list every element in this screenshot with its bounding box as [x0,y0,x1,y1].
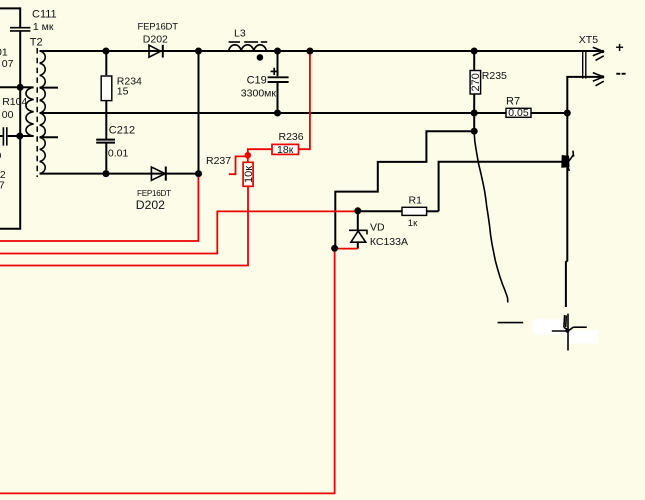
junction: diode link on + rail [195,48,202,55]
diode D202 (top, FEP16DT) [149,45,163,58]
junction: R1 / zener cathode node [354,207,361,214]
small dash mark [498,322,524,324]
junction: R235 top on + rail [471,48,478,55]
junction: C212 bottom on lower rail [103,170,110,177]
svg-text:D202: D202 [136,198,165,212]
capacitor C212 [96,140,115,174]
resistor R236 [248,52,310,156]
wire: entry to node at y=87.3 [0,86,20,88]
red wire: R237 bottom lead out left [0,187,248,266]
junction dot (red) R236/R237 [245,152,252,159]
svg-text:T2: T2 [30,36,43,48]
wire: long vertical from R7 node down [566,113,567,307]
svg-text:15: 15 [117,85,129,97]
svg-text:3300мк: 3300мк [241,87,277,99]
wire: C111 top entry [0,8,20,27]
svg-text:D202: D202 [143,33,168,45]
svg-text:1 мк: 1 мк [33,21,54,33]
svg-text:270: 270 [470,73,482,91]
junction: R235 bottom on middle rail [471,110,478,117]
red wire: from bottom-rail node down and out left [0,175,198,241]
secondary (right) winding [40,51,46,88]
wire: vertical joining diode cathodes x=198.5 [198,51,200,174]
resistor R234 [101,51,112,139]
svg-text:R236: R236 [279,131,304,143]
minus terminal sign [616,73,625,75]
svg-text:C19: C19 [247,75,267,87]
primary (left) winding [20,86,33,88]
svg-text:R1: R1 [409,194,423,206]
cursor cross scribble [552,314,587,351]
svg-text:07: 07 [0,180,5,192]
svg-text:01: 01 [0,46,8,58]
junction: primary bottom node [16,133,23,140]
svg-text:0.01: 0.01 [108,147,129,159]
wire: R1 output to right vertical [439,162,563,212]
transformer T2 [20,48,58,177]
red wire: zener anode link [335,248,358,250]
plus sign of C19 [271,70,278,72]
resistor R1 [358,207,439,215]
svg-text:C212: C212 [109,124,135,136]
svg-text:10к: 10к [243,166,255,183]
capacitor (left edge, partial) [0,127,20,145]
resistor R7 [506,108,531,117]
red wire: left exit to zener junction [0,211,355,253]
junction: R234 top on + rail [103,48,110,55]
svg-text:R7: R7 [506,96,520,108]
resistor R237 [229,155,253,186]
svg-text:C111: C111 [32,8,57,20]
junction: R7 right / XT5 riser [564,110,571,117]
svg-text:0.05: 0.05 [508,107,529,119]
zener diode VD KC133A [349,211,368,249]
svg-text:VD: VD [370,222,385,234]
svg-text:КС133А: КС133А [370,236,408,248]
junction: diode cathode node on lower rail [195,170,202,177]
wire: staircase from mid rail node down-left to zener anode node [335,113,474,248]
svg-text:FEP16DT: FEP16DT [138,22,179,33]
wire: middle rail y=113 [40,112,568,114]
diode D202 (bottom, FEP16DT) [151,167,165,181]
junction: staircase / squiggle node [471,128,478,135]
junction: R236 riser on + rail [306,48,313,55]
svg-text:R237: R237 [206,155,231,167]
tap stubs [40,87,59,89]
minus chevron [593,73,603,77]
resistor R235 [470,51,481,113]
wire: left column below C111 down to exit [0,32,20,229]
scribble arrow blob at (567,161) [562,151,574,171]
inductor L3 [229,42,268,51]
plus chevron [593,47,603,51]
minus line riser [567,77,603,113]
hand-drawn squiggle from node (474,131) [474,134,508,303]
junction: C111 / primary top node [17,84,24,91]
capacitor C111 [10,28,30,31]
svg-text:00: 00 [2,109,14,121]
capacitor C19 (electrolytic) [268,51,289,113]
svg-text:R104: R104 [2,96,27,108]
junction: C19 top on + rail [274,48,281,55]
double bars [582,50,584,78]
svg-text:L3: L3 [234,27,246,39]
junction: C19 bottom on middle rail [274,110,281,117]
svg-text:FEP16DT: FEP16DT [137,189,171,198]
svg-text:0: 0 [0,150,2,162]
L3 winding-start dot [257,54,264,61]
svg-text:R235: R235 [482,70,507,82]
connector XT5 [567,47,604,113]
white patches near cursor [533,320,565,335]
wire: top rail (+) y=51 [40,50,602,52]
svg-text:XT5: XT5 [579,34,598,46]
core dashed line [36,48,38,177]
svg-text:07: 07 [2,58,14,70]
red wire: long vertical to bottom and out left [0,250,335,493]
svg-text:1к: 1к [408,218,418,229]
svg-text:18к: 18к [277,144,294,156]
svg-text:+: + [616,39,624,55]
wire: bottom rail y=173.6 [40,173,199,175]
junction: zener anode node [331,245,338,252]
